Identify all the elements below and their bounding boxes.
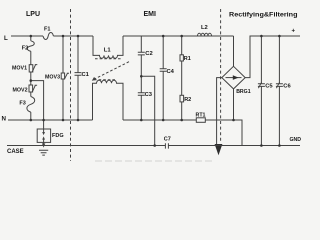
varistor MOV3 column: [62, 36, 64, 73]
resistor R1/R2 column: [181, 36, 183, 120]
capacitor C1 column: [77, 36, 79, 120]
wire: bridge top vertex drop: [233, 36, 235, 66]
svg-text:C1: C1: [82, 72, 90, 78]
wire: F3 to N: [30, 112, 32, 120]
L1 core line top (dashed): [95, 58, 122, 60]
wire: top rail to L1: [53, 35, 93, 37]
svg-text:F2: F2: [22, 46, 28, 52]
svg-text:MOV1: MOV1: [12, 65, 27, 71]
node C1 bottom: [77, 119, 80, 122]
node C5 bottom: [260, 144, 263, 147]
arrowhead minus to ground: [215, 144, 223, 155]
node C5 top: [260, 35, 263, 38]
fuse F1: [43, 33, 53, 40]
coupling arrowhead on L1 diagonal: [92, 77, 96, 81]
wire: top L rail left segment: [11, 35, 43, 37]
svg-text:FDG: FDG: [52, 133, 64, 139]
wire: N rail after RT1 to bridge: [205, 119, 233, 121]
wire: N rail left segment: [8, 119, 93, 121]
svg-text:EMI: EMI: [144, 11, 157, 18]
node C1 top: [77, 35, 80, 38]
svg-text:BRG1: BRG1: [236, 89, 251, 95]
wire: top rail from L1 to bridge: [123, 35, 234, 37]
node MOV1/MOV2 junction: [30, 79, 33, 82]
wire: FDG to case rail: [43, 142, 45, 145]
wire: case/ground rail right segment: [168, 145, 300, 147]
svg-text:MOV2: MOV2: [13, 87, 28, 93]
capacitor C4 plates: [160, 69, 167, 71]
resistor R1: [180, 55, 183, 61]
svg-text:C3: C3: [145, 92, 153, 98]
wire: case/ground rail left segment: [7, 145, 165, 147]
svg-text:C6: C6: [283, 84, 291, 90]
svg-text:LPU: LPU: [26, 11, 40, 18]
capacitor C4 column: [162, 36, 164, 120]
node C6 top: [278, 35, 281, 38]
section divider LPU/EMI (dashed): [70, 9, 72, 161]
capacitor C2 plates: [138, 52, 145, 55]
svg-text:L1: L1: [104, 48, 112, 54]
svg-text:C2: C2: [145, 51, 152, 57]
varistor MOV2: [29, 85, 37, 92]
svg-text:F1: F1: [44, 27, 50, 33]
L1 coupling diagonal (dashed): [94, 62, 129, 80]
node C6 bottom: [278, 144, 281, 147]
svg-text:RT1: RT1: [196, 113, 206, 119]
svg-text:C5: C5: [265, 84, 273, 90]
svg-text:MOV3: MOV3: [45, 74, 60, 80]
wire: N rail middle segment: [123, 119, 196, 121]
svg-text:C4: C4: [167, 69, 175, 75]
wire: bridge right vertex to + rail: [245, 36, 300, 78]
wire: F2/MOV column top stub: [30, 36, 32, 41]
section divider EMI/Rectifying (dashed): [220, 9, 222, 142]
scan ghost streak: [95, 160, 215, 162]
svg-text:GND: GND: [290, 137, 302, 143]
capacitor C2/C3 column: [140, 36, 142, 120]
node R2 bottom: [180, 119, 183, 122]
wire: MOV1 to junction: [30, 72, 32, 85]
node Y-cap midpoint: [140, 75, 143, 78]
node C3 bottom: [140, 119, 143, 122]
inductor L1 top winding: [93, 36, 123, 58]
inductor L1 bottom winding: [93, 80, 124, 120]
thermistor RT1: [196, 118, 205, 123]
wire: bridge left vertex minus line: [217, 78, 222, 144]
fuse F3: [27, 97, 35, 113]
fuse F2: [27, 41, 34, 51]
earth ground symbol: [39, 150, 48, 155]
svg-text:N: N: [2, 116, 7, 123]
capacitor C3 plates: [138, 93, 145, 96]
capacitor C6 plates: [276, 82, 283, 88]
wire: F2 to MOV1: [30, 51, 32, 64]
gas discharge tube FDG: [37, 129, 50, 142]
bridge rectifier BRG1: [222, 66, 245, 89]
capacitor C5 plates: [258, 82, 265, 88]
svg-text:L2: L2: [201, 25, 208, 31]
svg-text:Rectifying&Filtering: Rectifying&Filtering: [229, 12, 298, 19]
capacitor C5 column: [260, 36, 262, 146]
wire: bridge bottom vertex to N junction and down to rail: [234, 89, 243, 146]
varistor MOV1: [29, 65, 37, 72]
node N/FDG junction: [42, 119, 45, 122]
node MOV3 top: [62, 35, 65, 38]
capacitor C6 column: [278, 36, 280, 146]
node MOV3 bottom: [62, 119, 65, 122]
L1 core line bottom (dashed): [94, 79, 117, 81]
wire: Y-cap midpoint to case rail: [141, 76, 154, 145]
svg-text:F3: F3: [19, 101, 25, 107]
node C4 bottom: [162, 119, 165, 122]
svg-text:+: +: [292, 29, 296, 35]
node midpoint to rail: [153, 144, 156, 147]
inductor L2: [198, 33, 212, 36]
svg-text:R2: R2: [184, 97, 191, 103]
node R1 top: [180, 35, 183, 38]
svg-text:L: L: [4, 35, 8, 42]
arrowhead FDG to ground: [42, 143, 45, 147]
svg-text:C7: C7: [164, 137, 171, 143]
wire: MOV2 to F3: [30, 92, 32, 97]
resistor R2: [180, 95, 184, 102]
capacitor C7: [165, 143, 168, 148]
svg-text:CASE: CASE: [7, 149, 24, 155]
node N/F3 junction: [30, 119, 33, 122]
node C4 top: [162, 35, 165, 38]
node L/F2 junction: [30, 35, 33, 38]
varistor MOV3: [61, 73, 69, 79]
capacitor C1 plates: [75, 73, 82, 76]
node bridge AC2: [232, 119, 235, 122]
svg-text:R1: R1: [184, 56, 191, 62]
wire: MOV junction branch to FDG column: [31, 81, 44, 129]
